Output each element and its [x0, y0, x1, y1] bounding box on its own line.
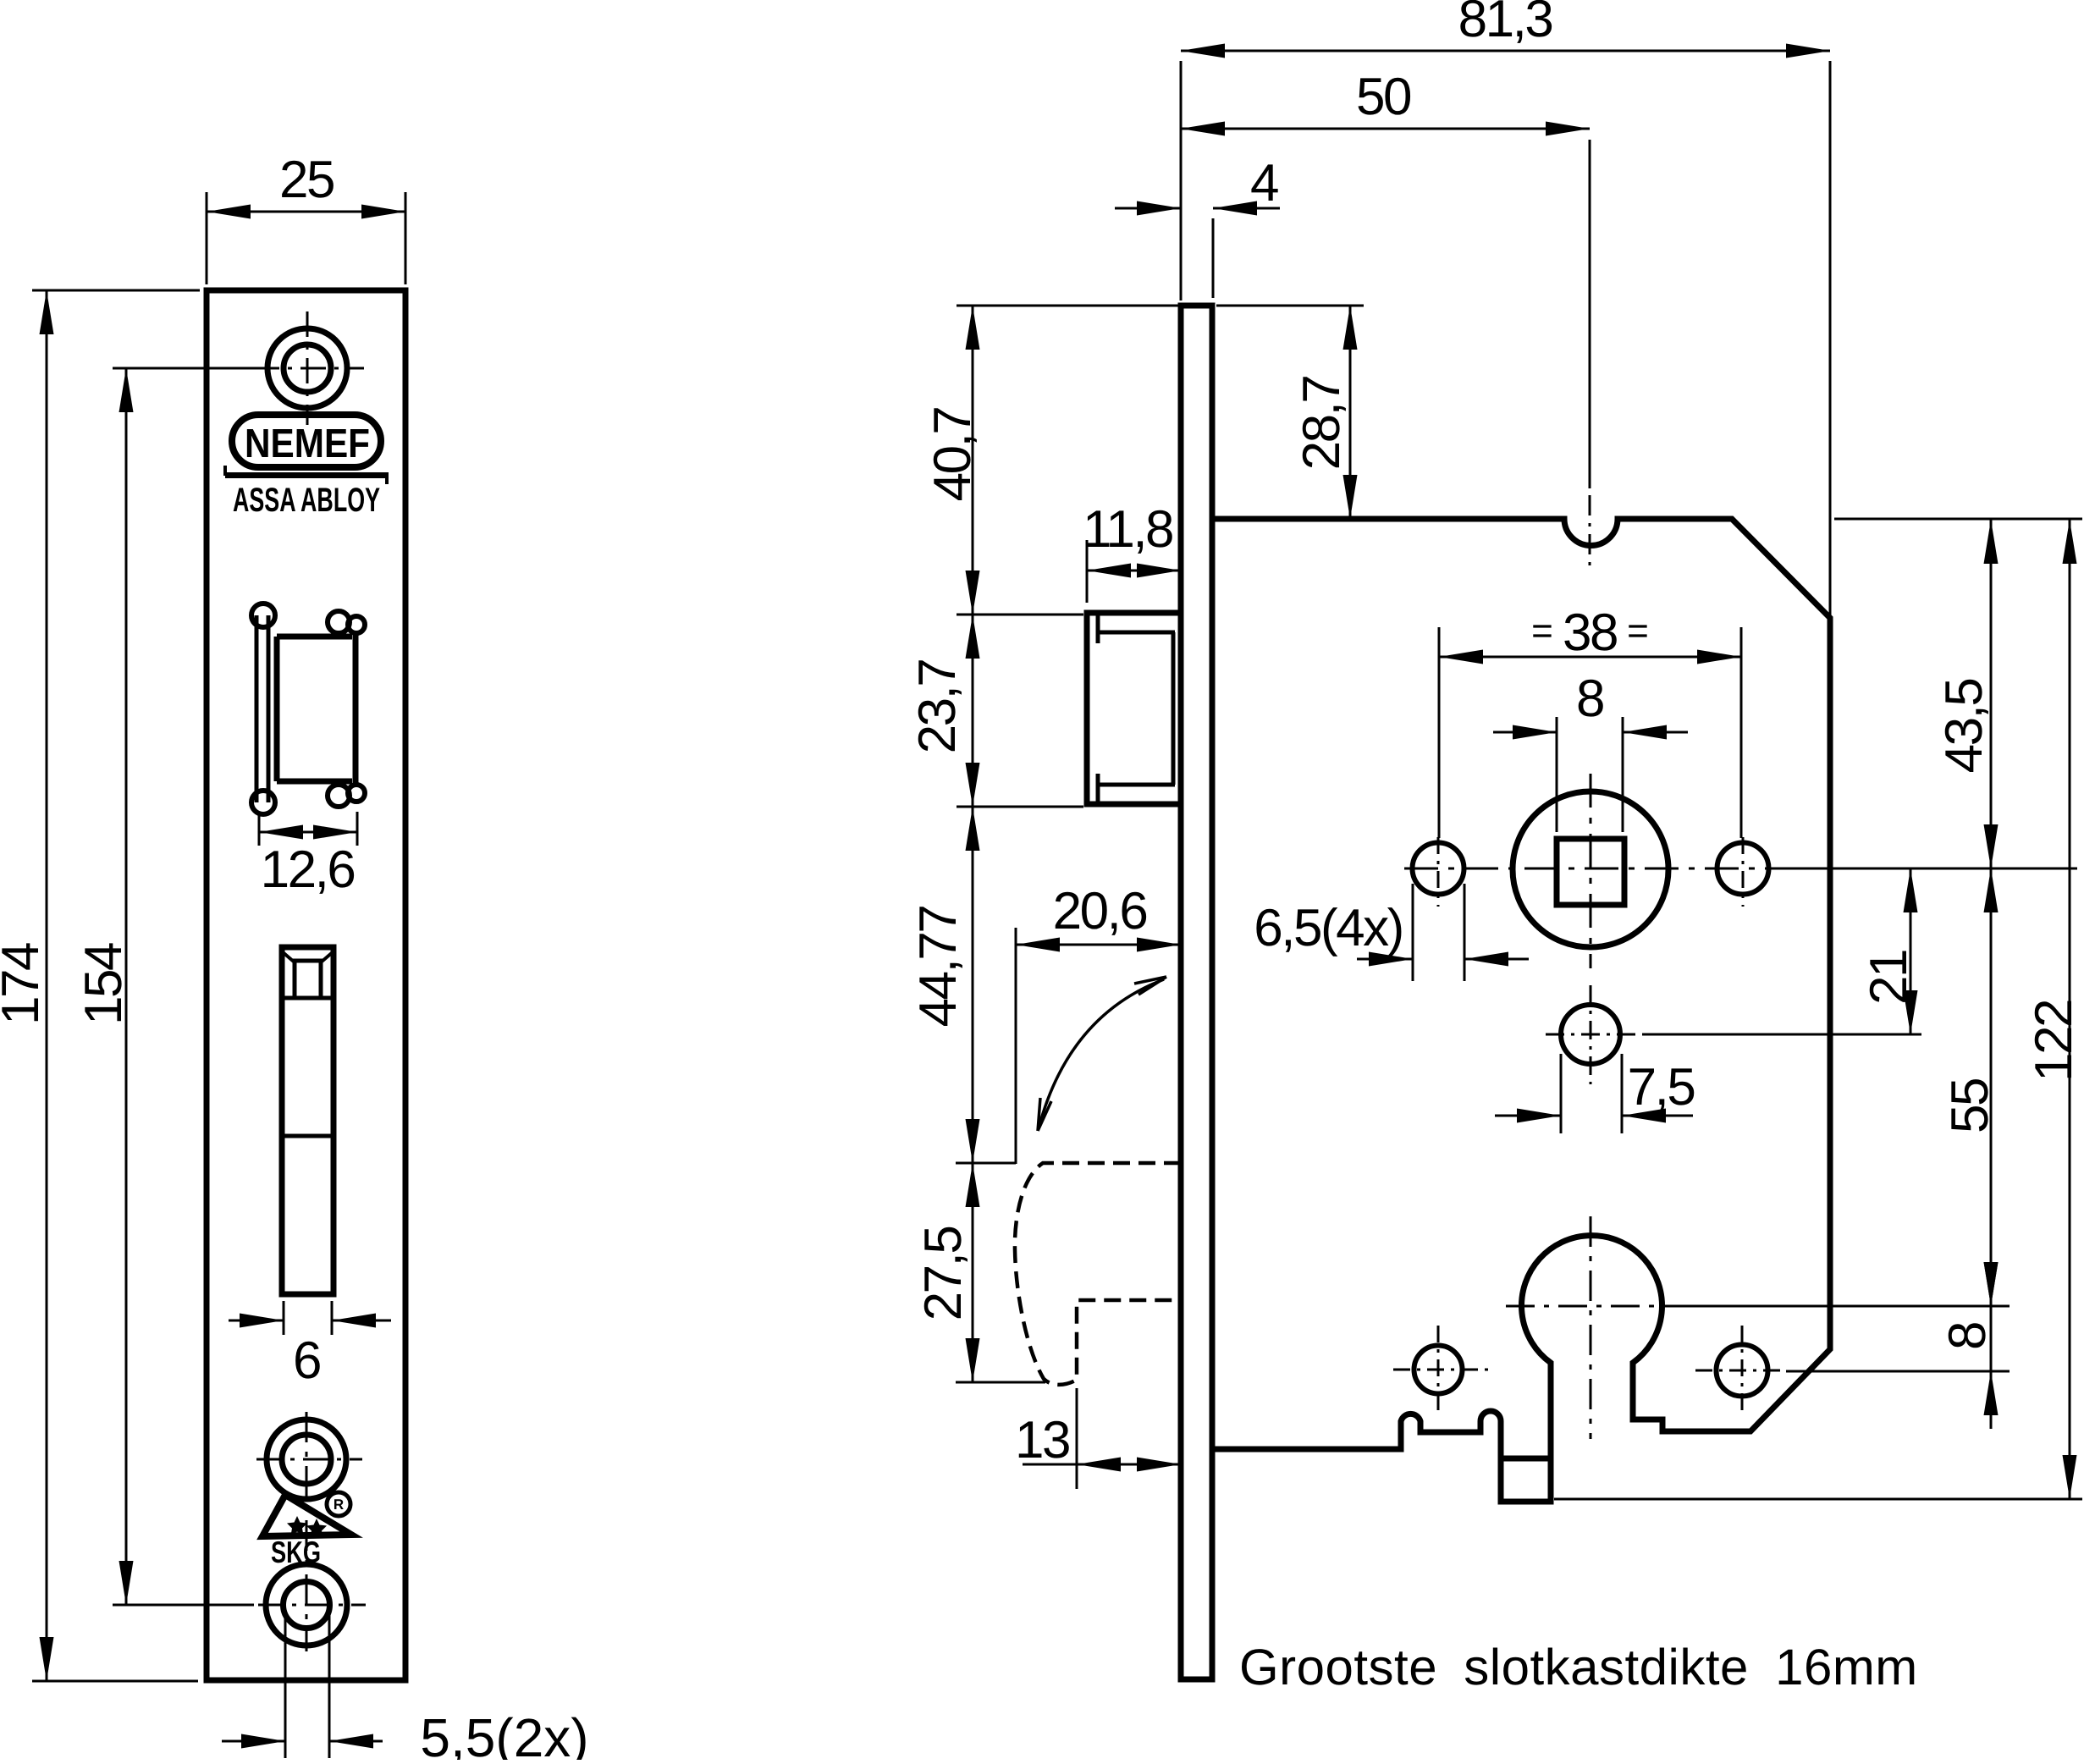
dimension 8 spindle — [1493, 670, 1688, 832]
latch cutout in faceplate — [251, 604, 365, 814]
dimension 5,5(2x) — [222, 1610, 589, 1764]
svg-text:20,6: 20,6 — [1053, 882, 1147, 940]
dimension 25 — [207, 151, 405, 284]
svg-text:=: = — [1531, 610, 1553, 652]
dimension 27,5 — [914, 1163, 1045, 1382]
dimension 43,5 — [1935, 520, 1999, 868]
bottom-left hole centerlines — [1393, 1326, 1488, 1415]
case top reference line right — [1834, 518, 2082, 521]
faceplate side view — [1181, 306, 1212, 1679]
dimension 8 right — [1938, 1262, 1999, 1429]
svg-text:50: 50 — [1356, 68, 1411, 126]
svg-text:4: 4 — [1250, 154, 1278, 212]
label 6,5(4x) with leader — [1254, 884, 1529, 981]
dimension 11,8 — [1083, 500, 1181, 603]
spindle square — [1557, 839, 1624, 905]
dimension 44,77 — [909, 807, 1016, 1163]
follower vertical centerline — [1590, 774, 1592, 968]
svg-text:81,3: 81,3 — [1458, 0, 1552, 48]
svg-text:25: 25 — [279, 151, 334, 209]
svg-text:13: 13 — [1015, 1411, 1069, 1469]
faceplate front view outline — [207, 290, 405, 1680]
dimension 23,7 — [908, 615, 1083, 807]
follower horizontal centerline — [1404, 868, 2077, 870]
svg-text:R: R — [334, 1497, 344, 1513]
svg-text:ASSA ABLOY: ASSA ABLOY — [233, 482, 380, 519]
svg-text:6: 6 — [293, 1331, 320, 1390]
top screw hole — [267, 328, 347, 408]
ASSA ABLOY logo bar — [225, 466, 387, 484]
svg-text:7,5: 7,5 — [1628, 1058, 1695, 1116]
cylinder centerlines — [1506, 1216, 2010, 1439]
dimension 50 — [1181, 68, 1590, 565]
SKG mark — [262, 1492, 351, 1538]
deadbolt thrown position (hidden/dashed) — [1015, 1163, 1181, 1385]
dimension 55 — [1941, 868, 1999, 1306]
svg-text:40,7: 40,7 — [923, 408, 982, 502]
hole 7.5 — [1561, 1005, 1620, 1064]
svg-text:43,5: 43,5 — [1935, 680, 1993, 774]
latch bolt side view — [1087, 613, 1181, 804]
svg-text:12,6: 12,6 — [261, 841, 355, 899]
ASSA ABLOY text — [233, 482, 380, 519]
middle screw hole — [267, 1419, 346, 1499]
middle screw hole centerline — [256, 1458, 362, 1461]
svg-text:8: 8 — [1576, 670, 1603, 728]
top screw hole centerlines — [254, 311, 364, 425]
dimension 6 — [229, 1301, 391, 1390]
note text — [1239, 1639, 1918, 1695]
follower boss circle — [1513, 791, 1668, 947]
dimension 40,7 — [923, 306, 1178, 615]
dimension 4 — [1115, 154, 1280, 298]
svg-text:23,7: 23,7 — [908, 660, 967, 754]
svg-text:21: 21 — [1860, 951, 1918, 1005]
dimension 81,3 — [1181, 0, 1830, 617]
case bottom reference line — [1554, 1498, 2082, 1501]
svg-text:38: 38 — [1563, 604, 1617, 662]
lower slot in faceplate — [282, 947, 334, 1294]
screw hole 6.5 bottom-left — [1414, 1346, 1463, 1394]
svg-text:8: 8 — [1938, 1323, 1997, 1350]
svg-text:122: 122 — [2025, 1001, 2083, 1082]
svg-text:NEMEF: NEMEF — [245, 422, 370, 466]
dimension 7,5 — [1495, 1054, 1694, 1133]
dimension 174 — [0, 290, 200, 1681]
screw hole 6.5 bottom-right — [1717, 1345, 1768, 1397]
SKG text — [271, 1535, 321, 1569]
dimension 21 — [1860, 868, 1918, 1034]
svg-text:5,5(2x): 5,5(2x) — [420, 1707, 588, 1760]
svg-text:154: 154 — [74, 943, 133, 1025]
tab top line — [1501, 1456, 1551, 1462]
dimension 13 — [1015, 1388, 1181, 1489]
svg-text:=: = — [1627, 610, 1649, 652]
svg-text:Grootste slotkastdikte 16mm: Grootste slotkastdikte 16mm — [1239, 1639, 1918, 1695]
dimension 122 — [2025, 520, 2083, 1499]
svg-text:6,5(4x): 6,5(4x) — [1254, 899, 1402, 957]
bottom-right hole centerlines — [1695, 1326, 2010, 1415]
NEMEF logo — [232, 415, 381, 467]
svg-text:55: 55 — [1941, 1079, 1999, 1133]
bottom screw hole — [266, 1564, 347, 1645]
swing arc arrow — [1038, 977, 1166, 1131]
hole centerline verticals top holes — [1438, 837, 1743, 907]
svg-text:11,8: 11,8 — [1083, 500, 1172, 559]
svg-text:27,5: 27,5 — [914, 1227, 973, 1321]
dimension =38= — [1439, 604, 1741, 838]
dimension 154 — [74, 368, 366, 1605]
lock case outline — [1212, 519, 1830, 1502]
hole 7.5 centerlines — [1546, 985, 1921, 1084]
svg-text:44,77: 44,77 — [909, 907, 968, 1028]
screw hole 6.5 top-left — [1413, 843, 1464, 895]
svg-text:174: 174 — [0, 943, 50, 1025]
svg-text:28,7: 28,7 — [1293, 377, 1351, 471]
dimension 20,6 — [1016, 882, 1181, 1164]
dimension 28,7 — [1216, 306, 1364, 519]
bottom screw holes vertical centerline — [306, 1412, 308, 1651]
screw hole 6.5 top-right — [1717, 843, 1769, 895]
dimension 12,6 — [259, 812, 357, 899]
